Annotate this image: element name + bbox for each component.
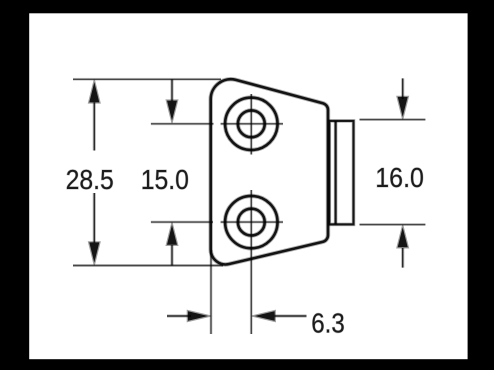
dim 16.0 upper stem (401, 78, 404, 99)
dim 6.3 left-pointing arrowhead (252, 310, 275, 321)
lower hole inner circle (238, 209, 265, 236)
frame black bar right (468, 0, 494, 370)
extension line bottom (28.5 / 15.0) (73, 264, 223, 267)
svg-text:15.0: 15.0 (141, 164, 189, 195)
dim 15.0 down arrowhead (166, 100, 178, 123)
extension line 6.3 left (part left edge extended down) (210, 250, 213, 334)
extension line 16.0 top (360, 118, 426, 121)
boss rectangle (right flange) (329, 121, 353, 224)
part body outline (211, 79, 328, 264)
dim 16.0 lower stem (401, 248, 404, 268)
centerline upper hole horizontal left segment (15.0 top extension) (151, 122, 214, 125)
upper hole inner circle (238, 110, 265, 137)
svg-text:6.3: 6.3 (311, 308, 345, 339)
extension line 16.0 bottom (360, 223, 426, 226)
centerline upper hole horizontal right segment (221, 122, 283, 125)
dim 15.0 upper stem (170, 79, 173, 101)
dim 15.0 lower stem (170, 245, 173, 266)
centerline upper hole vertical (250, 94, 253, 155)
centerline lower hole vertical, extended down as 6.3 right extension line (250, 190, 253, 334)
dim 28.5 lower stem (93, 193, 96, 243)
dim 28.5 up arrowhead (89, 80, 101, 103)
dim 6.3 left stem (167, 314, 191, 317)
upper hole outer circle (225, 98, 277, 150)
frame black bar top (0, 0, 494, 13)
boss inner step line (334, 121, 338, 224)
dim 28.5 down arrowhead (89, 242, 101, 265)
extension line top (28.5 / 15.0) (73, 78, 221, 81)
dim 6.3 right stem (275, 314, 307, 317)
svg-text:28.5: 28.5 (66, 164, 114, 195)
centerline lower hole horizontal left segment (15.0 bottom extension) (151, 221, 213, 224)
dim 16.0 up arrowhead (397, 225, 409, 248)
dim 15.0 up arrowhead (166, 222, 178, 245)
dim 28.5 upper stem (93, 103, 96, 151)
lower hole outer circle (225, 196, 277, 248)
dim 16.0 down arrowhead (397, 96, 409, 119)
centerline lower hole horizontal right segment (221, 221, 283, 224)
frame black bar left (0, 0, 29, 370)
dim 6.3 right-pointing arrowhead (187, 310, 211, 321)
frame black bar bottom (0, 359, 494, 370)
svg-text:16.0: 16.0 (375, 162, 424, 193)
